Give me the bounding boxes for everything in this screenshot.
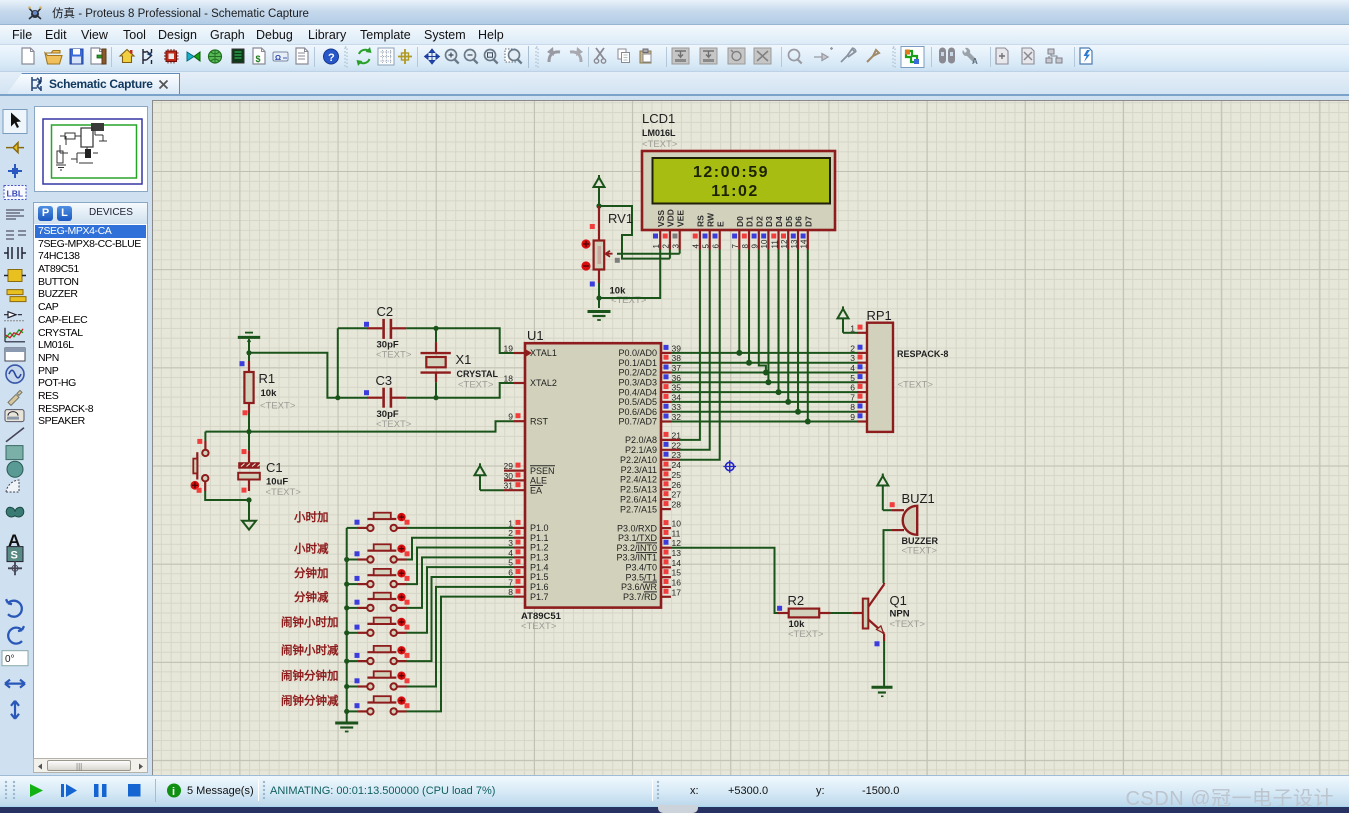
node C1 bottom junction bbox=[246, 497, 251, 502]
U1 pin 21 (P2.0/A8) bbox=[625, 430, 681, 445]
wire RV1 wiper to LCD VEE pin 3 bbox=[615, 254, 680, 263]
wire P0.7 row to RP1 pin 9 bbox=[671, 421, 857, 423]
wire R1 bottom bbox=[248, 413, 250, 432]
U1 pin 5 (P1.4) bbox=[508, 558, 548, 573]
RP1 pin 7 bbox=[850, 392, 867, 402]
origin marker bbox=[723, 460, 736, 473]
capacitor C1 (electrolytic) bbox=[238, 432, 261, 493]
wire P0.0 row to RP1 pin 2 bbox=[671, 352, 857, 354]
label RV1 value 10k bbox=[610, 286, 627, 297]
U1 pin 15 (P3.5/T1) bbox=[625, 568, 681, 583]
wire Q1 emitter to ground bbox=[883, 641, 885, 686]
wire LCD D5 down bbox=[787, 250, 789, 402]
U1 pin 19 (XTAL1) bbox=[504, 344, 557, 359]
LCD1 pin 9 (D2) bbox=[751, 216, 765, 250]
label LCD1 type LM016L bbox=[642, 128, 676, 138]
label R2 TEXT bbox=[788, 629, 824, 640]
push button 5 (闹钟小时加) bbox=[347, 618, 410, 636]
wire button 4 to U1 P1.3 bbox=[407, 557, 515, 608]
LCD screen bbox=[653, 158, 831, 204]
wire RV1 bottom to VSS net bbox=[596, 283, 601, 308]
node button bus junction 3 bbox=[344, 582, 349, 587]
label Q1 type NPN bbox=[890, 609, 910, 620]
node P0.0 junction bbox=[736, 350, 742, 356]
potentiometer RV1 bbox=[581, 206, 612, 287]
U1 pin 11 (P3.1/TXD) bbox=[618, 528, 681, 543]
RP1 pin 3 bbox=[850, 353, 867, 363]
RP1 pin 2 bbox=[850, 343, 867, 353]
node P0.7 junction bbox=[805, 419, 811, 425]
push button 1 (小时加) bbox=[347, 513, 410, 531]
label RP1 type RESPACK-8 bbox=[897, 349, 948, 359]
U1 pin 29 (PSEN) bbox=[504, 461, 555, 476]
LCD1 pin 5 (RW) bbox=[702, 212, 716, 249]
LCD1 pin 14 (D7) bbox=[800, 216, 814, 250]
U1 pin 3 (P1.2) bbox=[508, 538, 548, 553]
wire BUZ1 to Q1 collector bbox=[884, 530, 892, 583]
label RP1 bbox=[867, 308, 892, 323]
resistor R1 bbox=[240, 353, 254, 416]
node button bus junction 4 bbox=[344, 605, 349, 610]
push button 2 (小时减) bbox=[347, 544, 410, 562]
U1 pin 30 (ALE) bbox=[504, 471, 547, 486]
U1 pin 24 (P2.3/A11) bbox=[621, 460, 682, 475]
ground (Q1 emitter) bbox=[872, 687, 893, 696]
label U1 bbox=[527, 328, 544, 343]
label R1 bbox=[259, 371, 276, 386]
label RP1 TEXT bbox=[898, 380, 934, 391]
label C3 bbox=[376, 373, 393, 388]
LCD1 pin 2 (VDD) bbox=[662, 209, 676, 249]
U1 pin 33 (P0.6/AD6) bbox=[618, 402, 681, 417]
label C3 TEXT bbox=[376, 419, 412, 430]
wire U1 P3.2 to R2 bbox=[671, 548, 778, 613]
label R2 bbox=[788, 593, 805, 608]
label button 闹钟分钟加 bbox=[281, 669, 339, 683]
U1 pin 35 (P0.4/AD4) bbox=[618, 383, 681, 398]
LCD1 pin 12 (D5) bbox=[780, 216, 794, 250]
label button 闹钟分钟减 bbox=[281, 693, 339, 707]
label C2 TEXT bbox=[376, 350, 412, 361]
label button 小时减 bbox=[293, 542, 329, 556]
U1 pin 28 (P2.7/A15) bbox=[620, 500, 681, 515]
node P0.4 junction bbox=[776, 389, 782, 395]
label Q1 TEXT bbox=[890, 619, 926, 630]
node button bus junction 8 bbox=[344, 709, 349, 714]
microcontroller U1 AT89C51 body bbox=[525, 343, 661, 607]
wire reset button to C1 bottom bbox=[205, 491, 249, 500]
U1 pin 13 (P3.3/INT1) bbox=[616, 548, 681, 563]
label button 分钟减 bbox=[294, 590, 329, 604]
U1 pin 37 (P0.2/AD2) bbox=[618, 363, 681, 378]
label C1 bbox=[266, 460, 283, 475]
label C2 bbox=[377, 304, 394, 319]
U1 pin 1 (P1.0) bbox=[508, 518, 548, 533]
wire P0.2 row to RP1 pin 4 bbox=[671, 372, 857, 374]
ground (RV1) bbox=[588, 312, 611, 321]
push button 7 (闹钟分钟加) bbox=[347, 671, 410, 689]
RP1 pin 4 bbox=[850, 363, 867, 373]
label button 闹钟小时减 bbox=[281, 643, 339, 657]
label LCD1 TEXT bbox=[642, 139, 678, 150]
wire LCD D7 down bbox=[807, 250, 809, 422]
U1 pin 7 (P1.6) bbox=[508, 577, 548, 592]
label X1 type CRYSTAL bbox=[457, 369, 499, 379]
wire RST net bbox=[205, 421, 514, 431]
push button (reset) bbox=[191, 432, 209, 493]
svg-text:?: ? bbox=[328, 52, 335, 64]
node RV1 top junction bbox=[596, 203, 601, 208]
LCD1 pin 10 (D3) bbox=[760, 216, 774, 250]
RP1 pin 6 bbox=[850, 383, 867, 393]
wire button 7 to U1 P1.6 bbox=[407, 587, 515, 687]
wire button 6 to U1 P1.5 bbox=[407, 577, 515, 661]
U1 pin 8 (P1.7) bbox=[508, 587, 548, 602]
resistor pack RP1 RESPACK-8 body bbox=[867, 323, 893, 432]
label C2 value 30pF bbox=[377, 340, 399, 351]
power terminal (BUZ1) bbox=[877, 474, 891, 511]
U1 pin 18 (XTAL2) bbox=[504, 374, 557, 389]
label BUZ1 TEXT bbox=[902, 546, 938, 557]
node R1 top junction bbox=[246, 350, 251, 355]
U1 pin 23 (P2.2/A10) bbox=[620, 450, 681, 465]
node P0.3 junction bbox=[765, 379, 771, 385]
label C1 value 10uF bbox=[266, 477, 288, 488]
U1 pin 22 (P2.1/A9) bbox=[625, 440, 681, 455]
RP1 pin 8 bbox=[850, 402, 867, 412]
svg-text:Ω: Ω bbox=[275, 53, 281, 62]
power terminal VDD (RV1) bbox=[594, 175, 605, 206]
label C1 TEXT bbox=[266, 487, 302, 498]
wire LCD D3 down bbox=[767, 250, 769, 383]
wire LCD pin 1 VSS down bbox=[599, 249, 660, 298]
wire P0.3 row to RP1 pin 5 bbox=[671, 381, 857, 383]
wire button 3 to U1 P1.2 bbox=[407, 548, 515, 585]
ground (button bus) bbox=[335, 723, 358, 732]
RP1 pin 9 bbox=[850, 412, 867, 422]
LCD1 pin 6 (E) bbox=[712, 221, 726, 250]
label C3 value 30pF bbox=[377, 409, 399, 420]
LCD1 pin 1 (VSS) bbox=[652, 210, 666, 250]
node button bus junction 5 bbox=[344, 630, 349, 635]
label BUZ1 bbox=[902, 491, 935, 506]
wire C3 to XTAL2 bbox=[436, 383, 514, 398]
wire C1 bottom to ground bbox=[248, 500, 250, 521]
wire P0.4 row to RP1 pin 6 bbox=[671, 391, 857, 393]
label LCD1 bbox=[642, 111, 675, 126]
wire C2 left to C3 left bbox=[337, 328, 339, 397]
label BUZ1 type BUZZER bbox=[902, 536, 939, 546]
label U1 TEXT bbox=[521, 621, 557, 632]
U1 pin 6 (P1.5) bbox=[508, 568, 548, 583]
label R1 TEXT bbox=[260, 401, 296, 412]
label RV1 TEXT bbox=[611, 295, 647, 306]
wire LCD D6 down bbox=[797, 250, 799, 412]
U1 pin 31 (EA) bbox=[504, 481, 543, 496]
LCD1 pin 13 (D6) bbox=[790, 216, 804, 250]
svg-text:$: $ bbox=[256, 54, 261, 64]
svg-text:0°: 0° bbox=[5, 654, 15, 665]
wire P0.1 row to RP1 pin 3 bbox=[671, 362, 857, 364]
ground (above R1) bbox=[238, 333, 260, 353]
label button 闹钟小时加 bbox=[281, 615, 339, 629]
push button 4 (分钟减) bbox=[347, 593, 410, 611]
power terminal (RP1 pin 1) bbox=[838, 306, 858, 332]
push button 8 (闹钟分钟减) bbox=[347, 696, 410, 714]
power terminal (EA pin 31) bbox=[475, 463, 505, 490]
node C3 right junction bbox=[433, 395, 438, 400]
U1 P3 pin name overlines bbox=[636, 543, 657, 592]
crystal X1 bbox=[421, 328, 451, 397]
node RST junction at R1/C1 bbox=[246, 429, 251, 434]
wire C2 to XTAL1 bbox=[436, 328, 514, 353]
node button bus junction 2 bbox=[344, 557, 349, 562]
wire LCD RS to P2.0 bbox=[680, 250, 700, 440]
U1 pin 39 (P0.0/AD0) bbox=[618, 343, 681, 358]
label Q1 bbox=[890, 593, 907, 608]
push button 6 (闹钟小时减) bbox=[347, 646, 410, 664]
LCD1 pin 4 (RS) bbox=[692, 215, 706, 250]
label R1 value 10k bbox=[261, 388, 278, 399]
U1 pin 12 (P3.2/INT0) bbox=[616, 538, 681, 553]
U1 pin 14 (P3.4/T0) bbox=[625, 558, 681, 573]
capacitor C2 bbox=[338, 319, 436, 339]
LCD1 pin 7 (D0) bbox=[731, 216, 745, 250]
U1 pin 10 (P3.0/RXD) bbox=[617, 519, 681, 534]
RP1 pin 5 bbox=[850, 373, 867, 383]
ground (C1, arrow style) bbox=[242, 521, 256, 530]
LCD1 pin 11 (D4) bbox=[770, 216, 784, 250]
wire button 2 to U1 P1.1 bbox=[407, 538, 515, 560]
wire LCD pin 3 drop bbox=[679, 249, 681, 254]
label button 分钟加 bbox=[294, 566, 329, 580]
LCD1 pin 3 (VEE) bbox=[672, 210, 686, 250]
U1 pin 2 (P1.1) bbox=[508, 528, 548, 543]
node button bus junction 6 bbox=[344, 659, 349, 664]
U1 pin 32 (P0.7/AD7) bbox=[618, 412, 681, 427]
U1 pin 9 (RST) bbox=[508, 412, 548, 427]
node C3 left junction bbox=[335, 395, 340, 400]
wire LCD D0 down bbox=[738, 250, 740, 353]
label RV1 bbox=[608, 211, 633, 226]
buzzer BUZ1 bbox=[890, 502, 918, 535]
node P0.5 junction bbox=[785, 399, 791, 405]
wire RV1 top to LCD VDD pin 2 bbox=[599, 206, 670, 259]
wire P0.5 row to RP1 pin 7 bbox=[671, 401, 857, 403]
svg-text:i: i bbox=[172, 786, 175, 798]
wire LCD RW to P2.1 bbox=[680, 250, 710, 450]
wire button 8 to U1 P1.7 bbox=[407, 597, 515, 712]
LCD display LCD1 LM016L body bbox=[642, 151, 835, 230]
wire R1 top to C2/C3 net bbox=[249, 353, 338, 398]
LCD1 pin 8 (D1) bbox=[741, 216, 755, 250]
capacitor C3 bbox=[338, 388, 436, 408]
U1 pin 4 (P1.3) bbox=[508, 548, 548, 563]
resistor R2 bbox=[777, 606, 830, 618]
RP1 pin 1 bbox=[850, 323, 867, 333]
wire button 5 to U1 P1.4 bbox=[407, 567, 515, 633]
U1 pin 27 (P2.6/A14) bbox=[620, 490, 681, 505]
wire LCD pin 2 drop bbox=[669, 249, 671, 259]
U1 pin 38 (P0.1/AD1) bbox=[618, 353, 681, 368]
node button bus junction 7 bbox=[344, 684, 349, 689]
label X1 bbox=[456, 352, 472, 367]
button bus wire (left common) bbox=[346, 528, 348, 723]
wire LCD D4 down bbox=[778, 250, 780, 393]
node P0.6 junction bbox=[795, 409, 801, 415]
label X1 TEXT bbox=[458, 380, 494, 391]
node C2 right junction bbox=[433, 326, 438, 331]
wire R2 to Q1 base bbox=[831, 612, 863, 614]
U1 pin 34 (P0.5/AD5) bbox=[618, 392, 681, 407]
node P0.1 junction bbox=[746, 360, 752, 366]
label R2 value 10k bbox=[789, 619, 806, 630]
svg-text:A: A bbox=[972, 57, 978, 66]
wire LCD D2 down (jog) bbox=[759, 250, 766, 373]
transistor Q1 NPN bbox=[863, 583, 884, 646]
label U1 type AT89C51 bbox=[521, 611, 562, 622]
U1 pin 36 (P0.3/AD3) bbox=[618, 373, 681, 388]
node P0.2 junction bbox=[763, 370, 769, 376]
wire LCD D1 down bbox=[748, 250, 750, 363]
wire LCD E to P2.2 bbox=[680, 250, 720, 460]
push button 3 (分钟加) bbox=[347, 569, 410, 587]
U1 pin 17 (P3.7/RD) bbox=[623, 587, 681, 602]
U1 pin 26 (P2.5/A13) bbox=[620, 480, 681, 495]
label button 小时加 bbox=[293, 510, 329, 524]
U1 pin 25 (P2.4/A12) bbox=[620, 470, 681, 485]
wire button 1 to U1 P1.0 bbox=[407, 527, 515, 529]
svg-text:LBL: LBL bbox=[7, 189, 24, 199]
U1 pin 16 (P3.6/WR) bbox=[621, 577, 681, 592]
svg-text:S: S bbox=[11, 550, 18, 562]
wire P0.6 row to RP1 pin 8 bbox=[671, 411, 857, 413]
